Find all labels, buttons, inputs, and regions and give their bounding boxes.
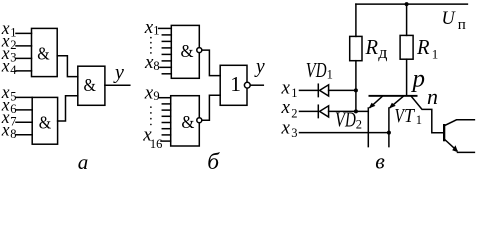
label x16 (b): [142, 124, 162, 151]
transistor VT1 emitter 1 arrow: [369, 97, 382, 109]
transistor VT1 collector wire to VT2 base: [412, 97, 444, 133]
svg-text:1: 1: [416, 113, 422, 127]
label VD1: [306, 58, 333, 82]
svg-text:U: U: [442, 8, 456, 29]
label R1: [416, 35, 438, 62]
svg-text:2: 2: [291, 106, 297, 120]
output wire y (b): [250, 84, 263, 86]
label Rd: [365, 35, 388, 62]
svg-text:x: x: [281, 97, 291, 118]
label y output: [113, 61, 124, 83]
gate DD3 symbol &: [84, 75, 96, 95]
svg-text:1: 1: [291, 86, 297, 100]
gate DD5 symbol &: [181, 112, 194, 132]
gate DD6 symbol 1: [230, 72, 241, 96]
wire DD1 output to DD3 input: [57, 56, 78, 77]
label p: [411, 66, 426, 93]
label x8: [1, 119, 17, 140]
AND gate DD2 box: [32, 97, 57, 144]
resistor Rd top lead: [355, 4, 357, 36]
svg-text:3: 3: [291, 126, 297, 140]
input wire x4: [16, 70, 32, 72]
caption b: [207, 149, 220, 175]
input wire x1: [16, 32, 32, 34]
gate DD2 symbol &: [39, 112, 51, 132]
resistor R1 top lead: [406, 4, 408, 35]
caption v: [375, 148, 385, 173]
gate DD1 symbol &: [37, 44, 49, 64]
NAND gate DD5 box: [171, 96, 200, 146]
svg-text:&: &: [39, 112, 51, 132]
diode VD2 cathode bar: [317, 105, 319, 117]
label x3: [1, 43, 17, 64]
junction node x2 diode: [354, 109, 358, 113]
diode VD1 wire to node: [329, 89, 356, 91]
svg-text:y: y: [113, 61, 124, 83]
svg-text:8: 8: [10, 127, 16, 141]
svg-text:1: 1: [153, 24, 159, 38]
svg-text:y: y: [254, 57, 265, 78]
transistor VT1 base bar: [369, 95, 418, 97]
input wire x2 to diode VD2: [300, 110, 319, 112]
dotted ellipsis top gate: [150, 38, 152, 54]
transistor VT1 emitter 1 wire down: [367, 108, 369, 147]
wire DD4 output to OR input: [202, 50, 220, 76]
svg-text:R: R: [365, 35, 379, 59]
svg-text:8: 8: [153, 59, 159, 73]
label x2 (v): [281, 97, 298, 120]
transistor VT2 base bar: [443, 124, 445, 141]
NAND gate DD4 box: [171, 25, 199, 78]
svg-text:R: R: [416, 35, 430, 59]
caption a: [78, 150, 89, 174]
DD4 output inversion bubble: [197, 48, 202, 53]
input wire x6: [16, 109, 32, 111]
DD4 input ticks x1..x8: [159, 28, 172, 73]
resistor Rd body: [350, 36, 362, 60]
label x6: [1, 95, 17, 116]
label VT1: [395, 105, 423, 127]
label x9 (b): [144, 83, 160, 104]
label y output (b): [254, 57, 265, 78]
input wire x2: [16, 45, 32, 47]
label x7: [1, 107, 17, 128]
dotted ellipsis bottom gate: [150, 107, 152, 125]
label x4: [1, 56, 18, 77]
label x8 (b): [144, 52, 160, 73]
input wire x5: [16, 96, 32, 98]
svg-text:D: D: [315, 58, 327, 82]
input wire x3 to emitter 2: [300, 132, 389, 134]
svg-text:а: а: [78, 150, 89, 174]
svg-text:n: n: [427, 84, 438, 109]
output wire y: [105, 84, 130, 86]
supply rail Up: [356, 3, 468, 5]
svg-text:x: x: [1, 56, 10, 76]
svg-text:1: 1: [432, 47, 439, 62]
wire DD5 output to OR input: [202, 95, 220, 120]
svg-text:в: в: [375, 148, 385, 173]
gate DD4 symbol &: [181, 41, 194, 61]
input wire x8: [16, 134, 32, 136]
svg-text:&: &: [84, 75, 96, 95]
transistor VT1 emitter 2 arrow: [389, 97, 403, 109]
transistor VT1 emitter 2 wire down: [388, 108, 390, 147]
resistor R1 body: [400, 35, 413, 59]
label x1 (v): [281, 78, 298, 101]
svg-text:1: 1: [230, 72, 241, 96]
svg-text:2: 2: [356, 117, 362, 131]
input wire x3: [16, 57, 32, 59]
DD5 input ticks x9..x16: [159, 98, 171, 141]
transistor VT2 collector: [445, 120, 474, 125]
svg-text:x: x: [281, 117, 291, 138]
AND gate DD1 box: [32, 28, 58, 76]
svg-text:1: 1: [327, 68, 333, 82]
svg-text:&: &: [181, 112, 194, 132]
label x1 (b): [144, 17, 160, 38]
label Up: [442, 8, 466, 33]
svg-text:д: д: [378, 43, 388, 62]
input wire x1 to diode VD1: [300, 89, 319, 91]
diode VD1 triangle: [320, 85, 329, 96]
input wire x7: [16, 121, 32, 123]
svg-text:x: x: [1, 119, 10, 139]
diode VD2 wire to node and emitter 1: [329, 110, 369, 112]
DD6 output inversion bubble: [244, 82, 250, 88]
transistor VT2 emitter arrow: [445, 140, 474, 152]
svg-text:16: 16: [150, 137, 163, 151]
junction node on rail for R1: [405, 2, 409, 6]
junction node x3 emitter 2: [387, 131, 391, 135]
diode VD2 triangle: [320, 106, 329, 117]
label x3 (v): [281, 117, 298, 140]
svg-text:&: &: [181, 41, 194, 61]
label x1: [1, 18, 17, 39]
diode VD1 cathode bar: [317, 84, 319, 96]
resistor Rd bottom lead to diode node: [355, 61, 357, 112]
junction node x1 diode: [354, 88, 358, 92]
svg-text:p: p: [411, 66, 426, 93]
svg-text:п: п: [458, 17, 466, 33]
svg-text:D: D: [344, 107, 356, 131]
svg-text:9: 9: [153, 89, 159, 103]
svg-text:x: x: [281, 78, 291, 99]
resistor R1 bottom lead to VT1 base bar: [406, 59, 408, 95]
label VD2: [335, 107, 362, 131]
svg-text:T: T: [404, 105, 416, 127]
svg-text:б: б: [207, 149, 220, 174]
DD5 output inversion bubble: [197, 118, 202, 123]
label x2: [1, 31, 17, 52]
AND gate DD3 box: [78, 66, 105, 105]
svg-text:&: &: [37, 44, 49, 64]
svg-text:4: 4: [10, 63, 17, 77]
label n: [427, 84, 438, 109]
wire DD2 output to DD3 input: [58, 96, 78, 121]
label x5: [1, 82, 17, 103]
OR gate DD6 box: [220, 65, 247, 105]
svg-text:x: x: [144, 83, 154, 104]
